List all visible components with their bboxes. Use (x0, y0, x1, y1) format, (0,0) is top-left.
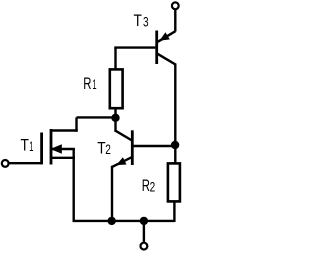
wire T1 source drop to rail (72, 149, 74, 222)
wire R1 bottom riser (114, 108, 116, 118)
node junction R1 / T1 drain / T2 collector (111, 114, 119, 122)
svg-text:3: 3 (143, 14, 149, 30)
transistor T2 (mirrored) (112, 118, 132, 222)
terminal left (gate) (2, 160, 9, 167)
wire R2 bottom riser (173, 202, 175, 223)
wire gate lead (9, 162, 43, 164)
node junction T2 emitter / rail (108, 217, 116, 225)
transistor T3 (PNP) (157, 31, 176, 65)
terminal top right (172, 2, 179, 9)
resistor R2 (168, 163, 180, 201)
wire junction to T1 drain (77, 116, 116, 118)
svg-text:R: R (83, 74, 91, 93)
svg-text:T: T (21, 136, 29, 155)
transistor T1 (MOSFET) (42, 129, 78, 165)
resistor R1 (110, 69, 123, 108)
wire top terminal to T3 emitter (174, 9, 176, 31)
wire T3 collector drop to R2 (174, 64, 176, 163)
svg-text:1: 1 (92, 76, 96, 92)
terminal bottom (141, 243, 148, 250)
node junction rail / bottom terminal (140, 217, 148, 225)
wire bottom rail (73, 220, 175, 222)
wire bottom terminal drop (143, 221, 145, 243)
svg-text:1: 1 (29, 138, 33, 154)
node junction T3 collector / R2 / T2 base (171, 141, 179, 149)
svg-text:2: 2 (105, 141, 111, 157)
svg-text:T: T (134, 11, 142, 30)
wire T3 base lead (114, 46, 155, 48)
wire T2 base lead (133, 145, 175, 147)
wire T1 drain riser (75, 117, 77, 131)
wire R1 top riser (114, 48, 116, 69)
svg-text:2: 2 (150, 179, 156, 195)
